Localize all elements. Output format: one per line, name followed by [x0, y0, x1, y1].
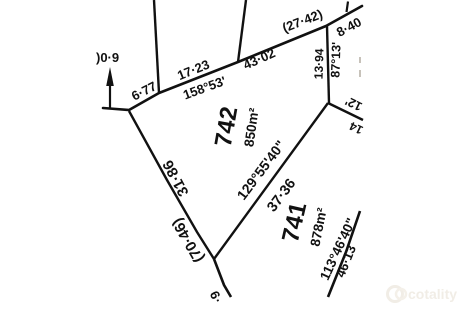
faint dashed marks — [359, 57, 361, 63]
svg-text:13·94: 13·94 — [311, 48, 326, 79]
svg-text:cotality: cotality — [408, 286, 457, 302]
west boundary continuation — [214, 259, 231, 297]
west boundary 31·86 / (70·46) — [129, 111, 214, 259]
dividing boundary between lot 742 and 741 — [214, 103, 328, 259]
north arrow shaft — [109, 74, 111, 108]
stub boundary south-east of node F — [328, 103, 363, 120]
south-east boundary 46·13 — [328, 211, 360, 297]
svg-text:87°13': 87°13' — [328, 42, 343, 78]
east boundary 13·94 — [327, 26, 329, 103]
road frontage boundary (main line) — [103, 6, 362, 110]
left vertical lot boundary — [154, 0, 159, 93]
watermark cotality logo — [388, 287, 407, 302]
north arrow head — [106, 67, 114, 86]
svg-text:)0·9: )0·9 — [96, 50, 119, 65]
survey tick on 8·40 segment — [347, 2, 349, 13]
right vertical lot boundary — [238, 0, 246, 62]
